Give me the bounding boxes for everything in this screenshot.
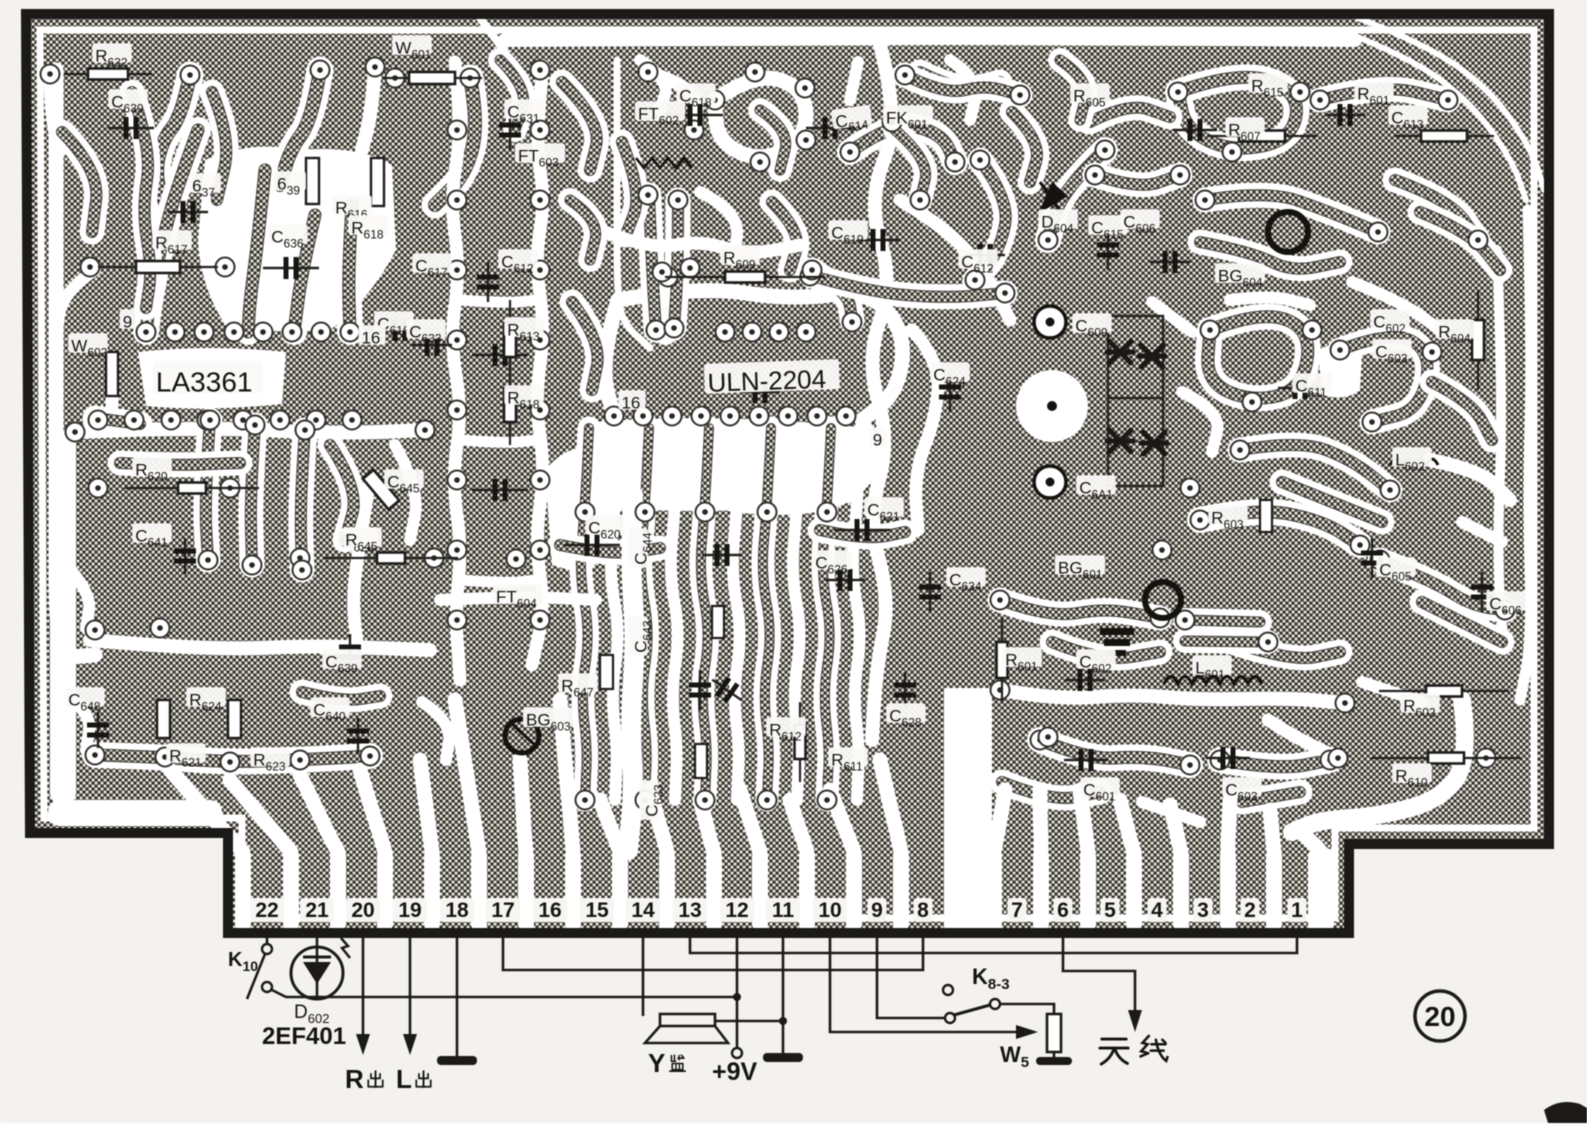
- pad: [696, 503, 715, 522]
- pad: [946, 153, 965, 172]
- label C628: [886, 703, 925, 729]
- capacitor C613: [1173, 119, 1217, 141]
- pad: [296, 421, 315, 440]
- wire to finger: [790, 800, 807, 852]
- wire: [212, 92, 226, 200]
- edge connector slot: [235, 848, 251, 932]
- pin 1: [1288, 898, 1307, 922]
- pad: [246, 416, 265, 435]
- pad: [291, 751, 310, 770]
- edge connector slot: [471, 848, 487, 932]
- label C603: [1372, 339, 1411, 365]
- svg-text:15: 15: [585, 899, 609, 922]
- pin 10: [813, 898, 847, 922]
- pad: [271, 411, 290, 430]
- capacitor C605: [1361, 538, 1383, 578]
- label C602: [1076, 649, 1115, 675]
- pad: [225, 323, 244, 342]
- pad: [1191, 511, 1210, 530]
- wire: [715, 78, 806, 157]
- svg-text:9: 9: [871, 899, 883, 922]
- pad: [448, 191, 467, 210]
- pad: [291, 549, 310, 568]
- label C613: [1388, 105, 1427, 131]
- pad: [448, 121, 467, 140]
- speaker Y: [642, 936, 645, 1016]
- pad: [156, 748, 175, 767]
- wire: [62, 132, 96, 232]
- pad: [1176, 611, 1195, 630]
- capacitor C640: [347, 718, 369, 754]
- wire left rail: [56, 70, 95, 656]
- svg-text:1: 1: [1291, 899, 1303, 922]
- pad: [1181, 479, 1200, 498]
- pad: [283, 323, 302, 342]
- pad: [366, 58, 385, 77]
- pad: [198, 411, 217, 430]
- pad: [1371, 551, 1390, 570]
- pad: [343, 411, 362, 430]
- jumper: [600, 655, 613, 689]
- pad: [843, 313, 862, 332]
- capacitor C637: [168, 201, 208, 223]
- wire: [1380, 560, 1505, 610]
- pad: [293, 561, 312, 580]
- label C611: [1292, 373, 1331, 399]
- wire: [1152, 302, 1192, 332]
- wire pin9 to K8-3: [877, 936, 944, 1018]
- wire: [812, 270, 852, 320]
- pin 15: [580, 898, 614, 922]
- resistor R624a: [157, 700, 170, 738]
- edge connector slot: [1080, 848, 1096, 932]
- edge connector slot: [706, 848, 722, 932]
- label C641: [132, 523, 171, 549]
- wire: [1000, 600, 1160, 618]
- wire: [605, 300, 873, 508]
- pad: [681, 259, 700, 278]
- wire: [560, 545, 660, 553]
- capacitor C610t: [1150, 251, 1190, 273]
- pad: [639, 186, 658, 205]
- resistor R601b: [997, 618, 1008, 702]
- wire: [912, 330, 938, 530]
- label C639: [108, 89, 147, 115]
- wire: [641, 428, 649, 800]
- wire: [671, 428, 679, 800]
- pad: [41, 65, 60, 84]
- wire: [354, 480, 370, 650]
- label antenna 天线: [1100, 1039, 1128, 1064]
- capacitor C603: [1206, 747, 1250, 769]
- capacitor C648: [87, 712, 109, 748]
- pad: [86, 746, 105, 765]
- pad: [758, 791, 777, 810]
- pad: [531, 611, 550, 630]
- svg-text:13: 13: [678, 899, 701, 922]
- wire: [975, 160, 1006, 280]
- wire: [1002, 782, 1100, 798]
- label C620: [585, 515, 624, 541]
- pad: [841, 143, 860, 162]
- label C606: [1486, 591, 1525, 617]
- pad: [1211, 751, 1230, 770]
- capacitor C631: [499, 110, 521, 150]
- wire pin6 to antenna: [1063, 936, 1135, 1015]
- pad: [448, 401, 467, 420]
- svg-text:20: 20: [1424, 1001, 1455, 1032]
- pad: [837, 407, 856, 426]
- label R610: [1392, 763, 1431, 789]
- wire: [760, 110, 786, 170]
- svg-text:R: R: [345, 1064, 364, 1094]
- pad: [751, 153, 770, 172]
- wire to finger: [994, 790, 1005, 852]
- label R615: [1248, 73, 1287, 99]
- label R601: [1002, 647, 1041, 673]
- wire: [95, 418, 140, 424]
- pad: [896, 66, 915, 85]
- wire: [812, 276, 1005, 297]
- wire: [1052, 642, 1160, 658]
- wire: [581, 428, 589, 800]
- label C633: [406, 319, 445, 345]
- pad: [716, 323, 735, 342]
- inductor L601: [1164, 677, 1262, 685]
- resistor R632: [64, 69, 152, 80]
- capacitor C6b4: [1141, 432, 1167, 454]
- wire to finger: [1120, 800, 1134, 852]
- wire: [600, 230, 800, 252]
- wire: [562, 82, 597, 170]
- wire: [1000, 690, 1345, 703]
- label C631: [504, 99, 543, 125]
- wire: [900, 200, 1010, 320]
- pad: [797, 323, 816, 342]
- pad: [162, 411, 181, 430]
- pad: [1201, 321, 1220, 340]
- pad: [221, 479, 240, 498]
- capacitor C602b: [1065, 669, 1105, 691]
- mounting hole big: [1016, 370, 1088, 442]
- label C601: [1080, 777, 1119, 803]
- label C612: [958, 249, 997, 275]
- IC label ULN-2204: [704, 359, 840, 398]
- wire: [649, 195, 656, 330]
- pad: [1181, 756, 1200, 775]
- pad: [818, 503, 837, 522]
- edge connector slot: [283, 848, 299, 932]
- wire: [422, 702, 449, 760]
- wire: [1462, 522, 1502, 542]
- label L602: [1392, 447, 1431, 473]
- wire: [572, 302, 598, 390]
- pad: [461, 69, 480, 88]
- pad: [796, 79, 815, 98]
- wire: [75, 429, 425, 433]
- pad: [746, 63, 765, 82]
- pad: [307, 411, 326, 430]
- label R601: [1354, 81, 1393, 107]
- svg-text:+9V: +9V: [712, 1058, 758, 1086]
- label R624: [186, 687, 225, 713]
- svg-text:2EF401: 2EF401: [262, 1023, 346, 1050]
- R-out arrow: [362, 936, 365, 1040]
- label W602: [68, 333, 107, 359]
- label C619: [828, 220, 867, 246]
- wire: [850, 62, 858, 100]
- wire: [1095, 175, 1180, 185]
- wire: [56, 270, 95, 340]
- wire to finger: [420, 760, 432, 852]
- wire: [302, 692, 380, 700]
- pad: [779, 407, 798, 426]
- svg-text:21: 21: [305, 899, 329, 922]
- pin 17: [486, 898, 520, 922]
- wire to finger: [1170, 805, 1181, 852]
- wire to finger: [880, 760, 901, 852]
- pad: [808, 407, 827, 426]
- wire to finger: [455, 700, 479, 852]
- wire: [1200, 512, 1360, 545]
- capacitor C618b: [667, 104, 723, 126]
- pin 22: [250, 898, 284, 922]
- pad: [692, 407, 711, 426]
- pad: [669, 191, 688, 210]
- pad: [531, 541, 550, 560]
- wire: [1395, 180, 1478, 240]
- pin 7: [1008, 898, 1027, 922]
- edge connector slot: [1308, 848, 1334, 932]
- wire: [206, 420, 210, 560]
- label C626: [812, 550, 851, 576]
- wire: [1358, 18, 1544, 190]
- wire: [628, 495, 635, 850]
- IC label LA3361: [153, 361, 263, 397]
- svg-text:10: 10: [818, 899, 841, 922]
- pad: [201, 411, 220, 430]
- wire: [132, 92, 150, 308]
- label C606: [1120, 209, 1159, 235]
- blank board region center: [545, 448, 612, 576]
- pad: [195, 323, 214, 342]
- wire to finger: [520, 760, 526, 852]
- capacitor C602 polarized mark: [1100, 628, 1134, 635]
- pad: [1011, 86, 1030, 105]
- svg-text:16: 16: [621, 394, 640, 413]
- wire to finger: [740, 790, 760, 852]
- pad: [576, 791, 595, 810]
- resistor R613: [504, 300, 516, 380]
- pin 13: [673, 898, 707, 922]
- wire: [1232, 642, 1340, 658]
- svg-text:16: 16: [538, 899, 561, 922]
- capacitor C639b: [339, 634, 361, 670]
- resistor R645: [324, 553, 458, 564]
- label C645: [384, 469, 423, 495]
- svg-text:ULN-2204: ULN-2204: [707, 364, 826, 398]
- wire: [395, 445, 416, 540]
- svg-text:19: 19: [398, 899, 421, 922]
- capacitor C616: [380, 319, 420, 341]
- ground pin11: [782, 936, 785, 1055]
- wire: [1060, 60, 1086, 120]
- svg-text:17: 17: [491, 899, 514, 922]
- pad: [605, 407, 624, 426]
- label R620: [132, 457, 171, 483]
- wire to finger: [650, 790, 667, 852]
- blank chip behind LA3361: [138, 348, 286, 409]
- pad: [1031, 731, 1050, 750]
- edge connector slot: [893, 848, 909, 932]
- wire: [1340, 337, 1427, 422]
- blank region right-mid: [1318, 344, 1362, 398]
- wire: [733, 428, 741, 800]
- edge connector slot: [799, 848, 815, 932]
- pin 9: [868, 898, 887, 922]
- svg-text:9: 9: [873, 431, 882, 450]
- pad: [81, 258, 100, 277]
- label C616: [374, 311, 413, 337]
- label C636: [268, 224, 307, 250]
- wire: [648, 72, 697, 130]
- inductor FT602 winding: [636, 158, 692, 168]
- pad: [66, 423, 85, 442]
- label R613: [504, 317, 543, 343]
- pin 16: [533, 898, 567, 922]
- wire: [301, 430, 305, 570]
- page corner mark: [1544, 1102, 1587, 1123]
- label R623: [250, 747, 289, 773]
- pad: [1439, 91, 1458, 110]
- pin 5: [1101, 898, 1120, 922]
- pad: [1311, 91, 1330, 110]
- wire: [1048, 150, 1105, 240]
- label C602: [1370, 309, 1409, 335]
- edge connector slot: [1173, 848, 1189, 932]
- wide clearance left edge: [50, 430, 76, 805]
- pad: [758, 503, 777, 522]
- label R632: [92, 43, 131, 69]
- svg-text:L: L: [396, 1064, 412, 1094]
- label R625: [338, 528, 377, 554]
- pad: [448, 611, 467, 630]
- edge connector slot: [659, 848, 675, 932]
- svg-text:18: 18: [445, 899, 469, 922]
- +9V terminal: [736, 936, 739, 1048]
- edge connector slot: [565, 848, 581, 932]
- pad: [216, 258, 235, 277]
- pin 20: [346, 898, 380, 922]
- antenna arrowhead: [1128, 1010, 1142, 1032]
- edge connector slot: [330, 848, 346, 932]
- wire: [460, 580, 537, 582]
- pad: [531, 471, 550, 490]
- wire: [280, 70, 320, 185]
- label C618: [676, 83, 715, 109]
- pad: [125, 411, 144, 430]
- wire: [1430, 460, 1510, 500]
- label R618: [348, 215, 387, 241]
- jumper: [371, 158, 384, 206]
- capacitor C614: [806, 117, 854, 139]
- wire to finger: [1270, 810, 1274, 852]
- wire: [330, 445, 354, 540]
- wire: [1182, 392, 1218, 452]
- wire: [532, 66, 543, 665]
- pad: [1291, 83, 1310, 102]
- pad: [531, 191, 550, 210]
- label R647: [558, 673, 597, 699]
- pad: [312, 323, 331, 342]
- label C624: [930, 362, 969, 388]
- capacitor C633: [412, 334, 452, 356]
- pad: [1381, 481, 1400, 500]
- pad: [801, 267, 820, 286]
- pad: [1169, 83, 1188, 102]
- wide clearance bottom-left edge: [48, 800, 222, 826]
- label R645: [342, 527, 381, 553]
- PCB board copper pour: [26, 14, 1549, 933]
- label C643: [628, 616, 654, 655]
- pad: [636, 791, 655, 810]
- resistor R604: [1472, 290, 1484, 390]
- wire: [823, 428, 831, 800]
- capacitor C635: [740, 381, 780, 403]
- wire K8-3 to W5: [1000, 1004, 1054, 1014]
- svg-text:5: 5: [1104, 899, 1116, 922]
- wire: [701, 428, 709, 800]
- wire to finger: [560, 700, 573, 852]
- capacitor C6b2: [1139, 345, 1165, 367]
- label R611: [828, 747, 867, 773]
- label 639: [274, 171, 306, 197]
- label R602: [1400, 693, 1439, 719]
- pad: [653, 263, 672, 282]
- wire to finger: [830, 790, 854, 852]
- wire: [1208, 317, 1308, 399]
- pad: [647, 321, 666, 340]
- label 9: [120, 309, 137, 331]
- wire: [62, 560, 89, 628]
- pad: [1243, 393, 1262, 412]
- label R604: [1435, 319, 1474, 345]
- pad: [1329, 749, 1348, 768]
- pad: [991, 591, 1010, 610]
- label FK601: [883, 105, 933, 131]
- label C6A1: [1076, 475, 1115, 501]
- wire: [674, 200, 678, 328]
- resistor R620: [125, 483, 259, 494]
- capacitor C634: [919, 572, 941, 612]
- wire: [1142, 802, 1200, 822]
- pad: [991, 681, 1010, 700]
- blank board region top-left: [198, 147, 396, 332]
- pad: [1363, 413, 1382, 432]
- pin 3: [1194, 898, 1213, 922]
- label BG604: [1215, 263, 1265, 289]
- edge connector slot: [518, 848, 534, 932]
- pad: [221, 753, 240, 772]
- pad: [1321, 751, 1340, 770]
- label C609: [1072, 313, 1111, 339]
- pad: [659, 268, 678, 287]
- capacitor C641: [174, 538, 196, 574]
- pad: [634, 407, 653, 426]
- wire: [872, 45, 891, 740]
- wire: [95, 755, 370, 761]
- svg-text:Y: Y: [648, 1048, 665, 1078]
